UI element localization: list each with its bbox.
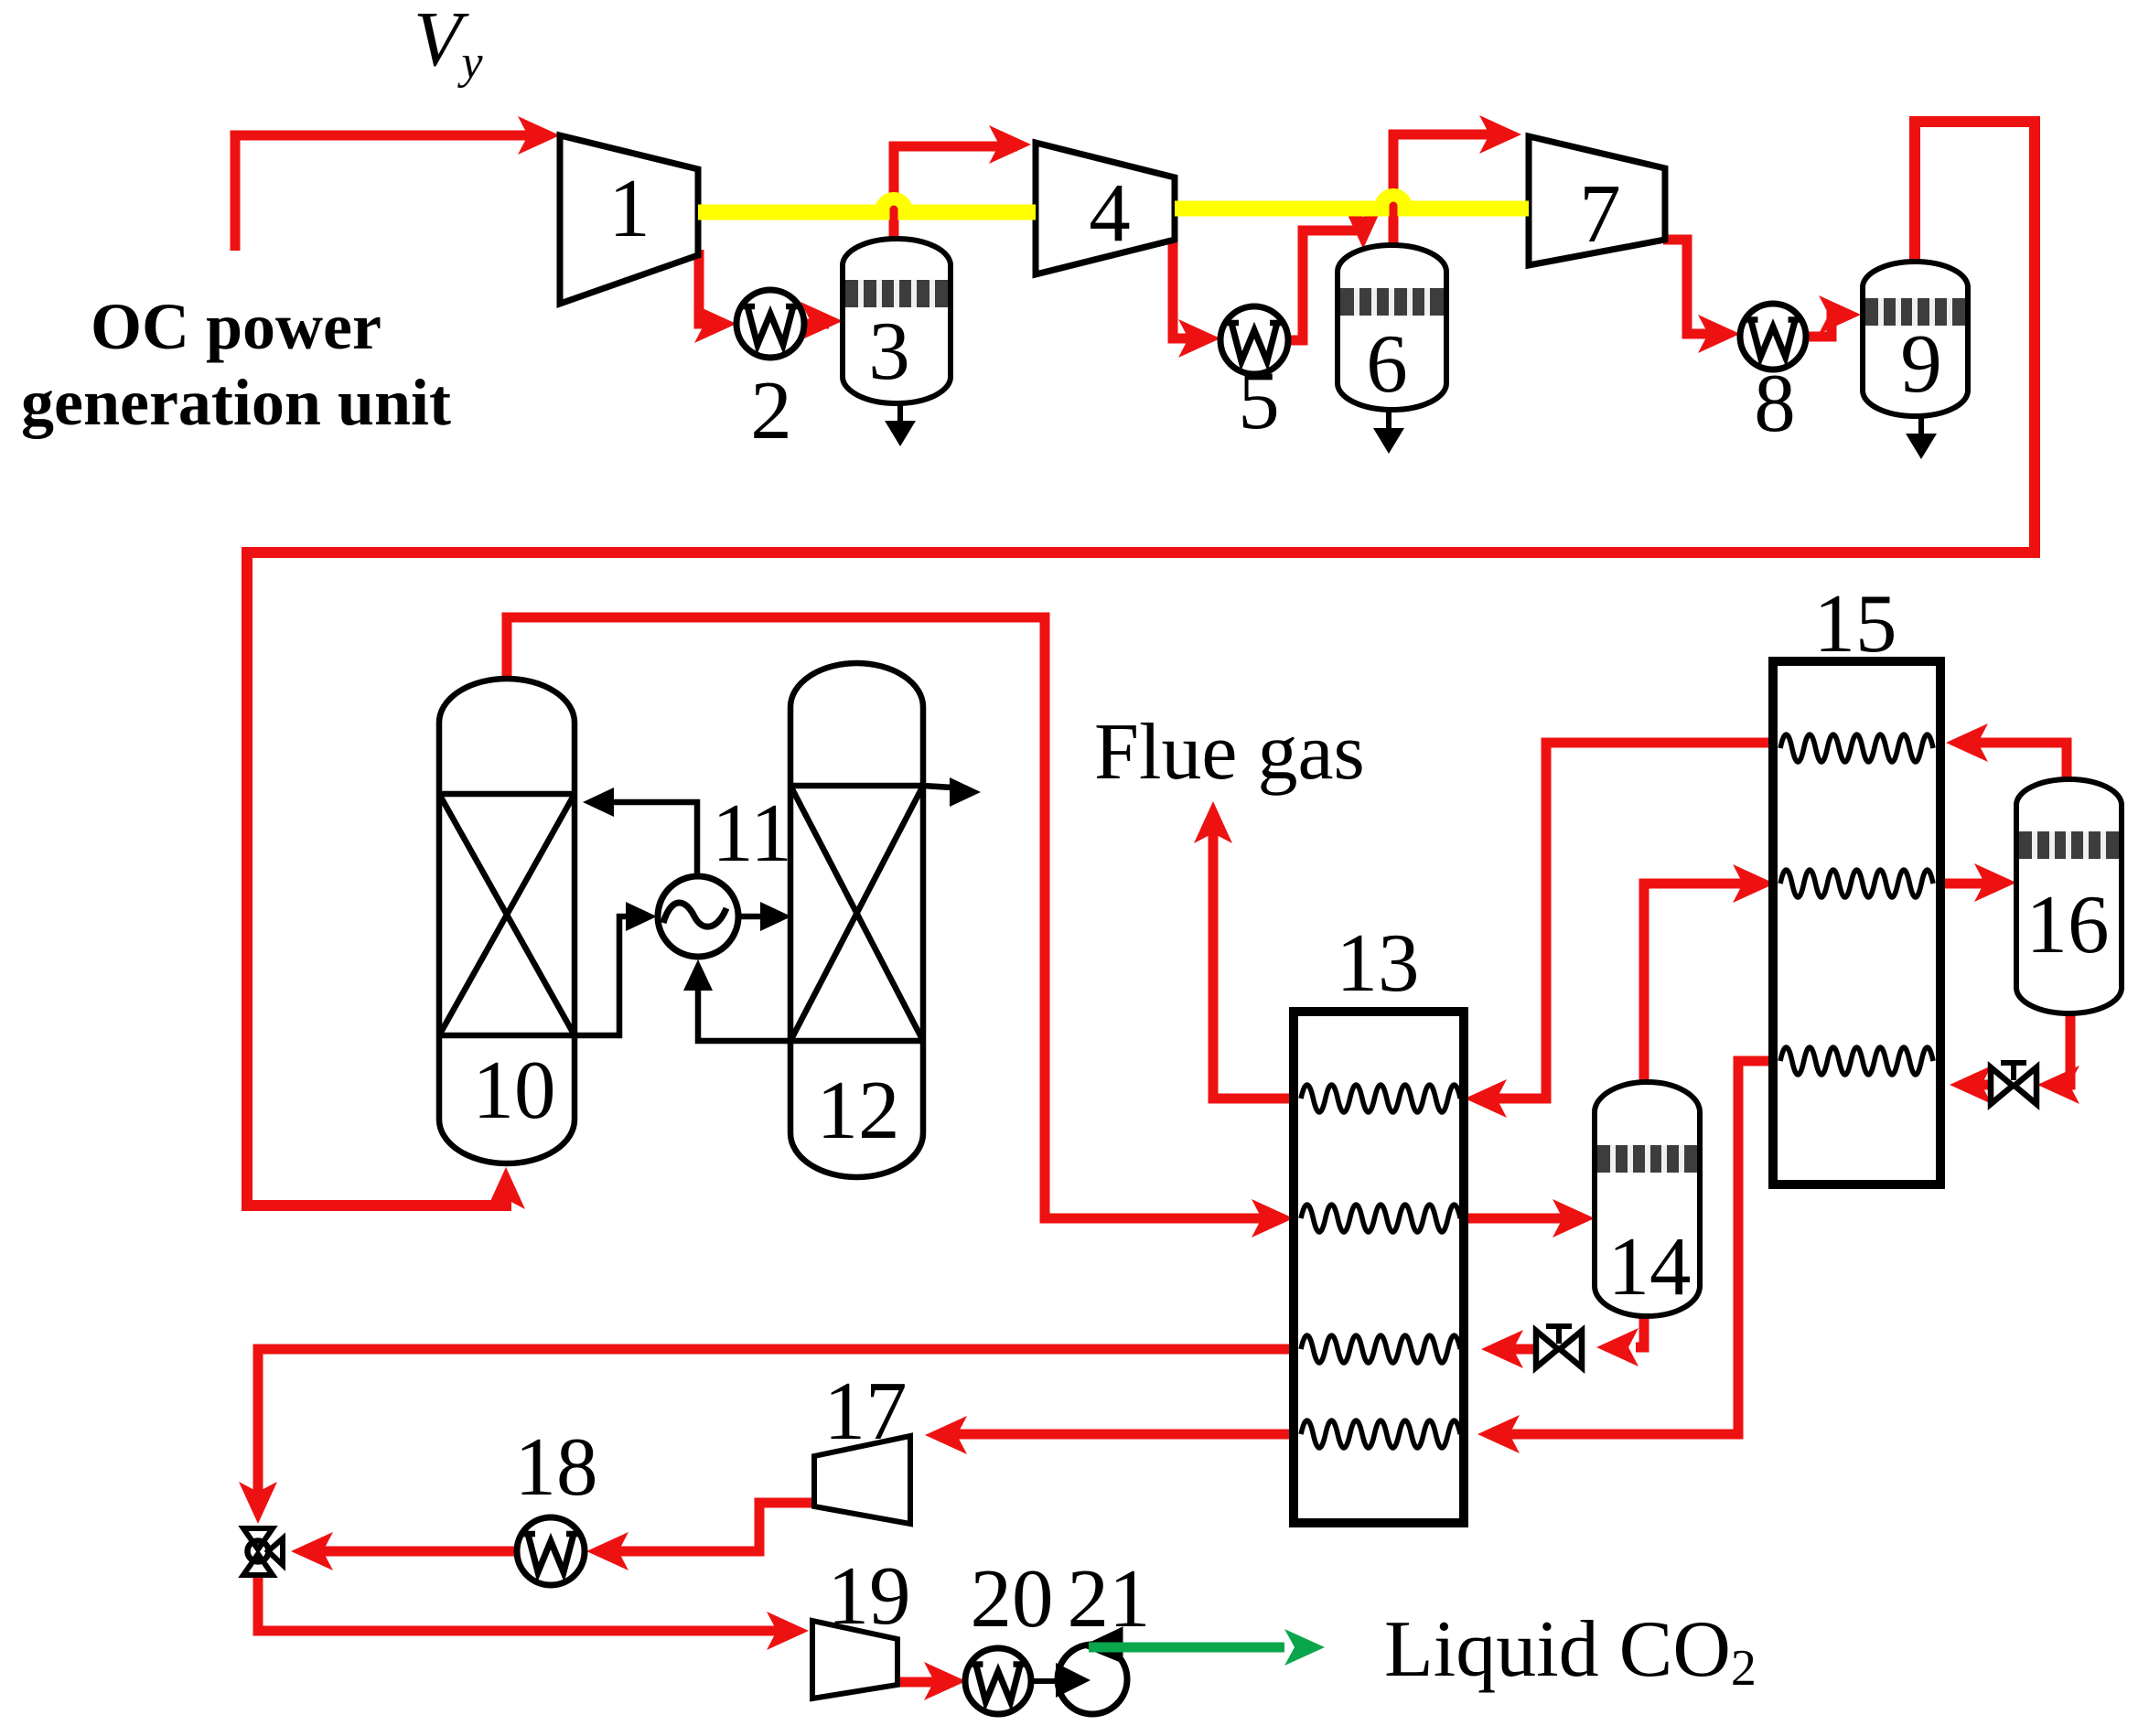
wire separator 14 overhead to exchanger 15 coil 2 — [1644, 864, 1775, 1082]
packed column 12 — [790, 663, 923, 1177]
label 16 — [2026, 878, 2110, 970]
wire exchanger 13 coil 1 to flue gas outlet — [1194, 801, 1301, 1098]
heat exchanger 11 — [658, 876, 738, 957]
svg-text:9: 9 — [1900, 317, 1942, 410]
svg-text:13: 13 — [1337, 916, 1420, 1009]
label 13 — [1337, 916, 1420, 1009]
packed column 10 — [439, 679, 575, 1163]
label 3 — [868, 305, 910, 397]
exchanger 15 coil 3 — [1780, 1047, 1933, 1075]
label 21 — [1068, 1552, 1151, 1645]
svg-text:21: 21 — [1068, 1552, 1151, 1645]
exchanger 13 coil 1 — [1301, 1085, 1460, 1112]
separator 14 — [1595, 1082, 1700, 1316]
svg-text:1: 1 — [608, 162, 650, 254]
cooler 18 — [517, 1517, 585, 1585]
separator 16 — [2016, 779, 2122, 1013]
pump 21 — [1058, 1627, 1127, 1714]
wire exchanger 15 coil 3 to exchanger 13 coil 4 — [1477, 1061, 1773, 1453]
label Vy — [414, 0, 484, 89]
svg-text:6: 6 — [1366, 317, 1408, 410]
svg-text:16: 16 — [2026, 878, 2110, 970]
wire cooler 18 to four-way valve — [291, 1532, 518, 1570]
label 11 — [712, 787, 792, 879]
wire exchanger 15 coil 2 to separator 16 — [1940, 863, 2016, 902]
label 9 — [1900, 317, 1942, 410]
wire exchanger 13 coil 3 to four-way valve — [239, 1349, 1294, 1524]
compressor 4 — [1036, 143, 1175, 274]
svg-text:17: 17 — [824, 1365, 908, 1457]
exchanger 13 coil 4 — [1301, 1420, 1460, 1448]
wire feed from OC power unit to compressor 1 — [235, 116, 560, 251]
expander 17 — [814, 1436, 910, 1524]
label 15 — [1814, 577, 1897, 670]
wire long recycle header to bottom of absorber 10 — [247, 552, 2040, 1209]
svg-text:14: 14 — [1608, 1220, 1692, 1313]
svg-text:3: 3 — [868, 305, 910, 397]
wire separator 16 overhead to exchanger 15 coil 1 — [1946, 723, 2067, 779]
throttle valve separator 14 bottoms — [1536, 1326, 1582, 1367]
label 8 — [1754, 357, 1796, 449]
wire liquid CO2 product line — [1089, 1629, 1325, 1666]
wire exchanger 13 coil 4 to expander 17 — [925, 1416, 1464, 1454]
separator 3 — [843, 239, 951, 403]
svg-text:20: 20 — [971, 1552, 1054, 1645]
pipe column 12 bottom to exchanger 11 — [683, 959, 790, 1041]
label 1 — [608, 162, 650, 254]
label 7 — [1579, 167, 1621, 260]
wire compressor 7 outlet to cooler 8 — [1663, 240, 1740, 353]
exchanger 15 coil 2 — [1780, 870, 1933, 897]
pipe column 10 bottom to exchanger 11 — [575, 902, 657, 1035]
separator 6 liquid drain arrow — [1373, 410, 1404, 454]
label 2 — [750, 364, 792, 456]
wire exchanger 15 coil 1 to exchanger 13 coil 1 — [1465, 743, 1773, 1118]
wire exchanger 13 coil 2 to separator 14 — [1464, 1199, 1595, 1238]
shaft compressor 1 to 4 — [698, 194, 1036, 226]
svg-text:15: 15 — [1814, 577, 1897, 670]
svg-text:5: 5 — [1238, 354, 1280, 446]
label Liquid CO2 — [1384, 1605, 1757, 1697]
svg-text:Flue gas: Flue gas — [1094, 708, 1365, 797]
wire compressor 19 outlet to cooler 20 — [897, 1662, 966, 1700]
label 19 — [828, 1549, 911, 1642]
pipe exchanger 11 to column 10 top — [583, 788, 697, 876]
label 5 — [1238, 354, 1280, 446]
svg-text:18: 18 — [515, 1420, 598, 1513]
wire cooler 2 to separator 3 — [801, 302, 843, 340]
wire cooler 5 to separator 6 top — [1288, 207, 1382, 340]
svg-text:10: 10 — [473, 1044, 556, 1136]
svg-text:11: 11 — [712, 787, 792, 879]
label 4 — [1089, 166, 1131, 259]
svg-text:4: 4 — [1089, 166, 1131, 259]
pipe exchanger 11 to column 12 — [738, 902, 791, 931]
wire four-way valve to compressor 19 — [258, 1575, 809, 1650]
cooler 5 — [1220, 306, 1288, 374]
wire separator 6 overhead to compressor 7 (crosses shaft) — [1393, 115, 1521, 246]
label 17 — [824, 1365, 908, 1457]
label 14 — [1608, 1220, 1692, 1313]
cooler 2 — [736, 290, 804, 358]
separator 9 liquid drain arrow — [1906, 416, 1937, 459]
wire separator 16 bottoms to valve — [2037, 1013, 2079, 1104]
shaft compressor 4 to 7 — [1175, 190, 1529, 222]
label 12 — [817, 1064, 900, 1156]
separator 3 liquid drain arrow — [885, 403, 916, 446]
svg-text:Liquid CO2: Liquid CO2 — [1384, 1605, 1757, 1697]
compressor 7 — [1529, 136, 1665, 265]
wire valve to exchanger 15 coil 3 — [1950, 1066, 1992, 1104]
wire separator 9 overhead down right side to long header — [1915, 122, 2035, 558]
label 6 — [1366, 317, 1408, 410]
cooler 8 — [1740, 304, 1806, 370]
svg-text:OC power: OC power — [91, 290, 381, 363]
label 20 — [971, 1552, 1054, 1645]
mixing valve with actuator — [243, 1528, 283, 1575]
wire separator 14 bottoms to valve — [1596, 1308, 1644, 1366]
cooler 20 — [965, 1648, 1031, 1714]
throttle valve separator 16 bottoms — [1991, 1063, 2036, 1104]
label Flue gas — [1094, 708, 1365, 797]
compressor 19 — [812, 1621, 897, 1698]
pipe cooler 20 to pump 21 — [1031, 1663, 1091, 1698]
wire compressor 4 outlet to cooler 5 — [1173, 238, 1220, 358]
wire separator 3 overhead to compressor 4 (crosses shaft) — [894, 125, 1031, 240]
compressor 1 — [560, 135, 698, 304]
label 10 — [473, 1044, 556, 1136]
svg-text:12: 12 — [817, 1064, 900, 1156]
svg-text:generation unit: generation unit — [21, 366, 451, 439]
wire compressor 1 outlet to cooler 2 — [694, 250, 736, 343]
svg-text:8: 8 — [1754, 357, 1796, 449]
multi-stream exchanger 13 — [1294, 1012, 1464, 1523]
svg-text:19: 19 — [828, 1549, 911, 1642]
separator 9 — [1863, 262, 1968, 416]
wire expander 17 outlet to cooler 18 — [586, 1503, 814, 1570]
pipe column 12 top outlet — [923, 777, 981, 807]
label 18 — [515, 1420, 598, 1513]
svg-text:2: 2 — [750, 364, 792, 456]
exchanger 13 coil 3 — [1301, 1335, 1460, 1363]
wire valve to exchanger 13 coil 3 — [1481, 1330, 1537, 1368]
wire absorber 10 overhead to exchanger 13 coil 2 — [507, 617, 1294, 1238]
separator 6 — [1338, 245, 1446, 410]
label OC power generation unit — [21, 290, 451, 439]
multi-stream exchanger 15 — [1773, 661, 1940, 1184]
exchanger 13 coil 2 — [1301, 1205, 1460, 1232]
svg-text:7: 7 — [1579, 167, 1621, 260]
wire cooler 8 to separator 9 — [1806, 295, 1861, 337]
exchanger 15 coil 1 — [1780, 734, 1933, 762]
